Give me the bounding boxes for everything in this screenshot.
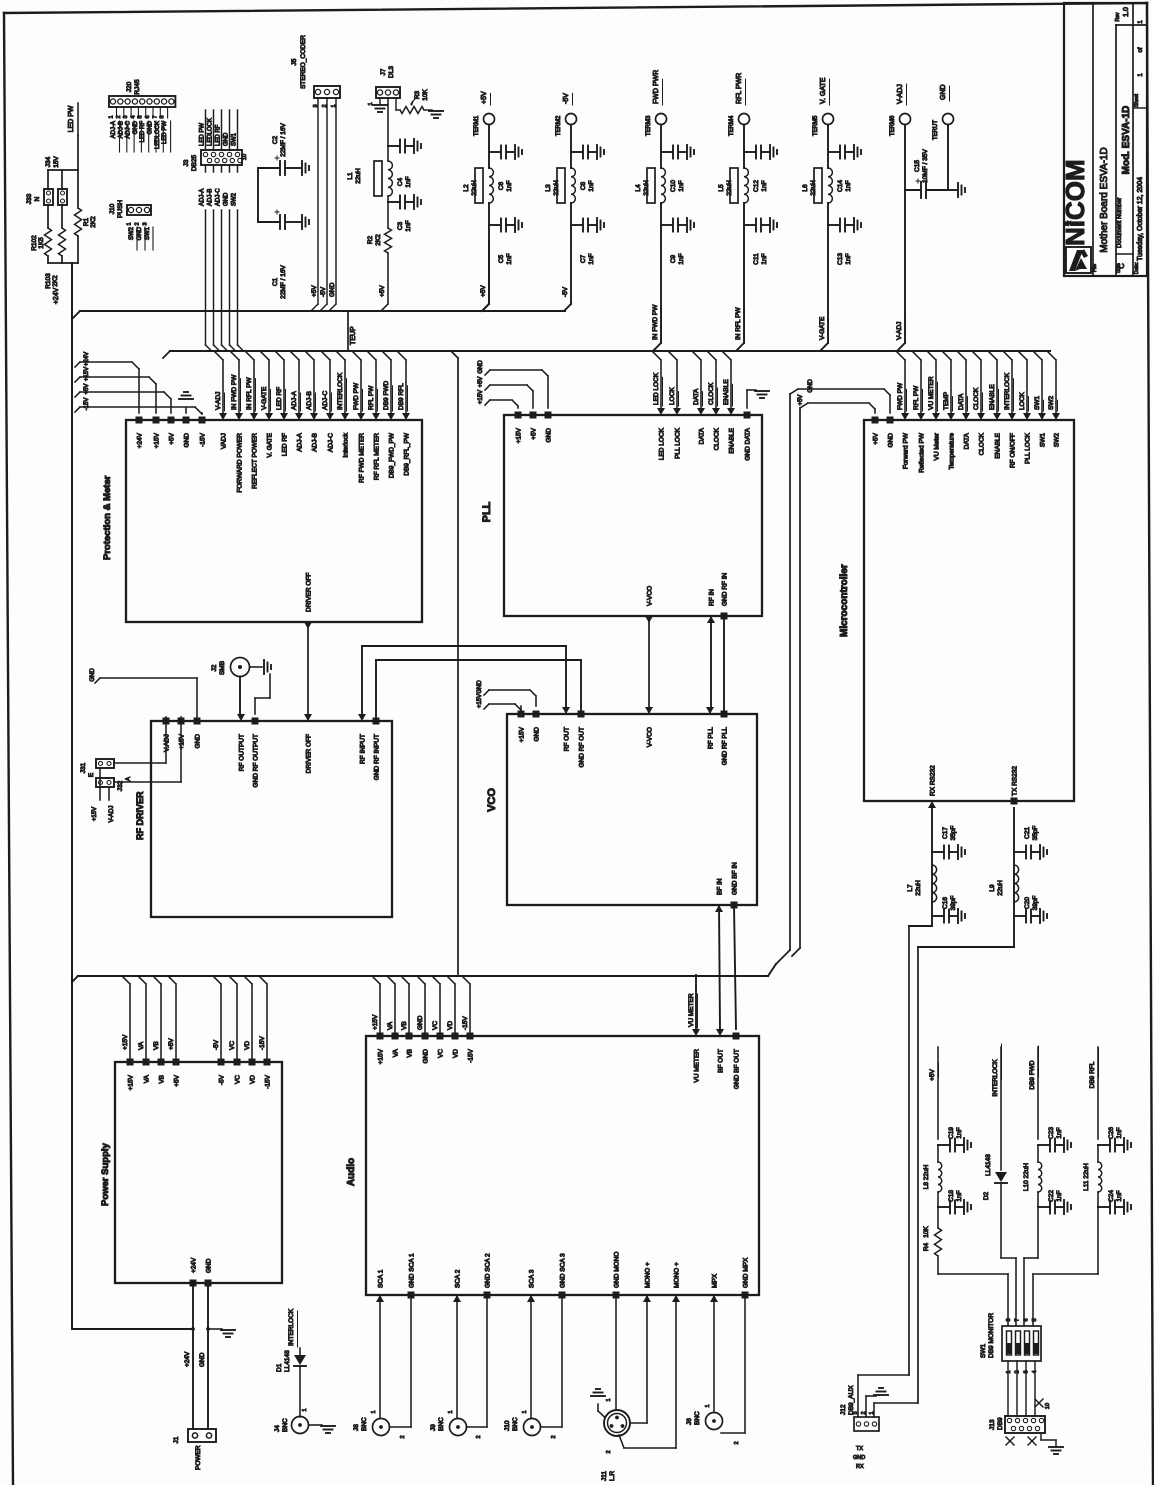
pin +24V — [136, 417, 143, 424]
svg-text:+15V: +15V — [378, 1048, 385, 1064]
svg-text:VA: VA — [393, 1048, 400, 1057]
svg-text:2: 2 — [551, 1435, 557, 1438]
svg-text:GND BF IN: GND BF IN — [732, 862, 739, 895]
wire GND RF OUT up — [580, 660, 582, 714]
svg-text:3: 3 — [143, 222, 149, 225]
svg-text:C10: C10 — [670, 180, 677, 192]
svg-text:10K: 10K — [923, 1226, 930, 1238]
svg-text:2: 2 — [606, 1450, 612, 1453]
wire L10 to SW1 — [1037, 1207, 1039, 1258]
svg-text:C18: C18 — [948, 1190, 955, 1202]
svg-text:PLL: PLL — [481, 501, 493, 522]
svg-text:GND SCA 3: GND SCA 3 — [560, 1253, 567, 1288]
pin BF OUT — [716, 1029, 724, 1036]
ground at J11 — [598, 1411, 605, 1417]
svg-text:E: E — [88, 772, 95, 777]
svg-text:RJ45: RJ45 — [134, 79, 141, 95]
svg-text:GND MPX: GND MPX — [743, 1257, 750, 1288]
svg-text:35pF: 35pF — [1032, 826, 1039, 841]
pin GND BF IN VCO bottom — [731, 902, 738, 909]
svg-text:ADJ-B: ADJ-B — [306, 391, 313, 410]
svg-text:VD: VD — [447, 1021, 454, 1030]
svg-text:+5V: +5V — [174, 1074, 181, 1086]
pin GND DATA — [744, 412, 751, 419]
svg-text:File: File — [1092, 264, 1098, 272]
svg-text:1K5: 1K5 — [38, 237, 45, 249]
svg-text:GND SCA 2: GND SCA 2 — [485, 1253, 492, 1288]
svg-text:BF OUT: BF OUT — [718, 1049, 725, 1073]
pin ENABLE — [993, 413, 1001, 420]
svg-text:J8: J8 — [353, 1424, 360, 1431]
svg-text:J9: J9 — [430, 1424, 437, 1431]
svg-text:TERM4: TERM4 — [729, 115, 735, 136]
bus +5V rail — [80, 310, 565, 312]
no-connect X mark — [1035, 1399, 1043, 1407]
svg-text:Sheet: Sheet — [1134, 93, 1140, 107]
svg-text:Protection & Meter: Protection & Meter — [102, 475, 113, 560]
svg-text:J7: J7 — [380, 68, 387, 75]
risers Protection — [222, 360, 224, 413]
svg-text:J1: J1 — [173, 1436, 180, 1443]
pin VB — [158, 1059, 165, 1066]
pin +5V — [168, 417, 175, 424]
svg-text:Mother Board ESVA-1D: Mother Board ESVA-1D — [1099, 147, 1110, 252]
svg-text:GND RF INPUT: GND RF INPUT — [374, 734, 381, 780]
svg-text:V-GATE: V-GATE — [261, 386, 268, 410]
svg-text:INTERLOCK: INTERLOCK — [1004, 372, 1011, 410]
pin GND — [183, 417, 190, 424]
riser — [394, 984, 396, 1032]
svg-text:C2: C2 — [272, 135, 279, 144]
resistor R102 1K5 — [45, 228, 52, 256]
svg-text:INTERLOCK: INTERLOCK — [288, 1308, 295, 1346]
svg-text:GND RF OUT: GND RF OUT — [579, 727, 586, 767]
svg-text:C4: C4 — [397, 177, 404, 186]
pin RF OUT — [562, 707, 570, 714]
pin +15V — [518, 711, 525, 718]
svg-text:DB9 MONITOR: DB9 MONITOR — [988, 1313, 995, 1358]
svg-text:J33: J33 — [26, 193, 33, 204]
svg-text:LED RF: LED RF — [282, 433, 289, 456]
svg-text:RFL PW: RFL PW — [913, 385, 920, 410]
svg-text:SCA 1: SCA 1 — [378, 1269, 385, 1288]
pin Reflected PW — [917, 413, 925, 420]
wire GND SCA 3 — [561, 1295, 563, 1427]
svg-text:6: 6 — [1023, 1318, 1029, 1321]
svg-text:ENABLE: ENABLE — [995, 432, 1002, 458]
svg-text:C17: C17 — [942, 827, 949, 839]
svg-text:V. GATE: V. GATE — [267, 432, 274, 457]
svg-text:J34: J34 — [45, 156, 52, 167]
wire RF INPUT link — [362, 645, 566, 647]
svg-text:LOCK: LOCK — [669, 387, 676, 405]
pin VA — [392, 1033, 399, 1040]
svg-text:INTERLOCK: INTERLOCK — [337, 372, 344, 410]
wires SW1 to J13 — [1007, 1361, 1009, 1416]
svg-text:TEUP: TEUP — [350, 326, 357, 345]
svg-text:+15V: +15V — [478, 390, 484, 404]
wire RF IN to RF PLL — [710, 616, 712, 710]
svg-text:1nF: 1nF — [405, 176, 412, 187]
svg-text:DATA: DATA — [958, 393, 965, 410]
svg-text:IN FWD PW: IN FWD PW — [652, 304, 659, 340]
svg-text:ADJ-A: ADJ-A — [111, 121, 117, 138]
svg-text:GND: GND — [133, 120, 139, 134]
pin +15V — [515, 412, 522, 419]
svg-text:Microcontroller: Microcontroller — [839, 564, 850, 637]
capacitor C23 1nF — [1038, 1144, 1049, 1146]
svg-text:1: 1 — [705, 1404, 711, 1407]
svg-text:+5V: +5V — [478, 377, 484, 388]
svg-text:GND: GND — [224, 192, 230, 206]
pin VD — [452, 1033, 459, 1040]
svg-text:2: 2 — [135, 222, 141, 225]
svg-text:LEDLOCK: LEDLOCK — [208, 118, 214, 146]
wire long verticals from hooks — [789, 394, 791, 950]
svg-text:+15V: +15V — [84, 367, 90, 381]
svg-text:4: 4 — [130, 115, 136, 118]
svg-text:R3: R3 — [414, 90, 421, 99]
svg-text:C1: C1 — [272, 277, 279, 286]
svg-text:-15V: -15V — [259, 1036, 266, 1050]
svg-text:1nF: 1nF — [761, 180, 768, 191]
riser — [439, 984, 441, 1032]
pin CLOCK — [712, 408, 720, 415]
svg-text:7: 7 — [1015, 1318, 1021, 1321]
svg-text:TX RS232: TX RS232 — [1012, 766, 1019, 796]
svg-text:ADJ-B: ADJ-B — [118, 121, 124, 138]
svg-text:Reflected PW: Reflected PW — [919, 432, 926, 473]
wire GND MPX — [744, 1295, 746, 1433]
riser — [175, 984, 177, 1058]
svg-text:1: 1 — [302, 1408, 308, 1411]
svg-text:Date:: Date: — [1134, 262, 1140, 274]
svg-text:5: 5 — [1032, 1318, 1038, 1321]
svg-text:R2: R2 — [367, 235, 374, 244]
wire +24V junction — [47, 256, 49, 263]
svg-text:SW1: SW1 — [232, 132, 238, 146]
svg-text:VD: VD — [250, 1075, 257, 1084]
svg-text:V-ADJ: V-ADJ — [215, 392, 222, 410]
svg-text:L1: L1 — [347, 172, 354, 180]
pin BF IN VCO bottom — [715, 905, 723, 912]
pin SCA 1 — [376, 1295, 384, 1302]
svg-text:VC: VC — [235, 1075, 242, 1084]
svg-text:1nF: 1nF — [761, 253, 768, 264]
svg-text:VB: VB — [159, 1075, 166, 1084]
pin V-VCO PLL bottom — [645, 616, 653, 623]
svg-text:RF FWD METER: RF FWD METER — [359, 433, 366, 483]
wire +24V rail join — [72, 1328, 193, 1330]
svg-text:J2: J2 — [211, 664, 218, 671]
svg-text:L.R: L.R — [609, 1471, 616, 1481]
svg-text:1nF: 1nF — [1116, 1127, 1123, 1138]
capacitor C7 1nF — [570, 203, 572, 240]
svg-text:MONO +: MONO + — [674, 1262, 681, 1288]
svg-text:+15V: +15V — [179, 733, 186, 749]
svg-text:2K2: 2K2 — [375, 234, 382, 246]
svg-text:-5V: -5V — [320, 286, 327, 297]
svg-text:LED LOCK: LED LOCK — [659, 427, 666, 460]
svg-text:22MF / 16V: 22MF / 16V — [280, 265, 287, 299]
wire — [387, 98, 389, 146]
svg-text:FWD PWR: FWD PWR — [653, 70, 660, 104]
svg-text:TERM6: TERM6 — [890, 115, 896, 136]
svg-text:1: 1 — [109, 115, 115, 118]
svg-text:L7: L7 — [907, 884, 914, 892]
block PLL — [504, 415, 762, 616]
svg-text:-5V: -5V — [562, 286, 569, 297]
svg-text:J4: J4 — [274, 1425, 281, 1432]
svg-text:DL3: DL3 — [388, 66, 395, 78]
svg-text:L6: L6 — [802, 184, 809, 192]
svg-text:22uH: 22uH — [997, 880, 1004, 896]
svg-text:J10: J10 — [504, 1420, 511, 1431]
pin RF PLL — [706, 707, 714, 714]
svg-text:8: 8 — [1006, 1318, 1012, 1321]
pin GND — [533, 711, 540, 718]
svg-text:RF DRIVER: RF DRIVER — [135, 791, 145, 840]
svg-text:C7: C7 — [580, 254, 587, 263]
svg-text:1nF: 1nF — [678, 253, 685, 264]
svg-text:V-ADJ: V-ADJ — [896, 322, 903, 340]
svg-text:DB9 FWD: DB9 FWD — [1029, 1060, 1036, 1090]
pin +15V — [127, 1059, 134, 1066]
capacitor C4 1nF — [388, 145, 399, 147]
svg-text:RX RS232: RX RS232 — [930, 765, 937, 796]
pin MONO + — [643, 1295, 651, 1302]
wire GND RF INPUT link — [376, 659, 581, 661]
svg-text:LED RF: LED RF — [140, 121, 146, 143]
svg-text:SCA 3: SCA 3 — [529, 1269, 536, 1288]
svg-text:RF ON/OFF: RF ON/OFF — [1010, 433, 1017, 468]
svg-text:IN RFL PW: IN RFL PW — [735, 307, 742, 340]
svg-text:Document Number: Document Number — [1117, 198, 1123, 248]
svg-text:DATA: DATA — [699, 427, 706, 444]
svg-text:+24V: +24V — [53, 287, 60, 304]
pin GND RF IN PLL bottom — [721, 613, 728, 620]
svg-text:3: 3 — [123, 115, 129, 118]
svg-text:1nF: 1nF — [845, 180, 852, 191]
svg-text:SW1: SW1 — [145, 226, 151, 240]
pin VD — [249, 1059, 256, 1066]
pin RF OUTPUT — [237, 714, 245, 721]
svg-text:VA: VA — [138, 1041, 145, 1050]
svg-text:J13: J13 — [989, 1419, 996, 1430]
svg-text:C8: C8 — [580, 181, 587, 190]
svg-text:LEDLOCK: LEDLOCK — [155, 121, 161, 149]
svg-text:VD: VD — [244, 1041, 251, 1050]
svg-text:+5V: +5V — [84, 384, 90, 395]
capacitor C21 35pF — [1014, 851, 1025, 853]
svg-text:1nF: 1nF — [405, 220, 412, 231]
wire J2 to RF OUTPUT — [239, 677, 241, 718]
wire +24V to J1 — [192, 1283, 194, 1429]
pin DRIVER OFF bottom — [304, 622, 312, 629]
svg-text:VA: VA — [387, 1021, 394, 1030]
svg-text:RX: RX — [856, 1464, 864, 1470]
svg-text:C15: C15 — [914, 160, 921, 172]
svg-text:J5: J5 — [291, 58, 298, 65]
pin VU METER — [692, 1029, 700, 1036]
svg-text:1nF: 1nF — [506, 253, 513, 264]
capacitor C19 1nF — [938, 1144, 949, 1146]
svg-text:+5V: +5V — [798, 395, 804, 406]
pin GND SCA 2 — [484, 1292, 491, 1299]
svg-text:C24: C24 — [1108, 1190, 1115, 1202]
svg-text:35pF: 35pF — [950, 826, 957, 841]
svg-text:1nF: 1nF — [506, 180, 513, 191]
wire GND RF OUTPUT — [269, 674, 271, 698]
svg-text:D2: D2 — [983, 1191, 990, 1200]
wire GND SCA 1 — [410, 1295, 412, 1427]
wire RF OUT up — [565, 646, 567, 714]
svg-text:LL4148: LL4148 — [985, 1154, 992, 1176]
pin GND — [422, 1033, 429, 1040]
svg-text:ADJ-B: ADJ-B — [208, 189, 214, 206]
svg-text:C19: C19 — [948, 1127, 955, 1139]
svg-text:J31: J31 — [80, 762, 87, 773]
riser — [266, 984, 268, 1058]
svg-text:+15V: +15V — [92, 807, 98, 821]
svg-text:-5V: -5V — [563, 93, 570, 104]
svg-text:CLOCK: CLOCK — [708, 382, 715, 405]
capacitor C13 1nF — [827, 203, 829, 240]
pin DB9_RFL_PW — [402, 413, 410, 420]
pin SW1 — [1038, 413, 1046, 420]
pin CLOCK — [977, 413, 985, 420]
svg-text:BNC: BNC — [694, 1411, 701, 1425]
svg-text:+5V: +5V — [168, 1038, 175, 1050]
svg-text:A: A — [125, 776, 132, 781]
svg-text:TERM5: TERM5 — [813, 115, 819, 136]
svg-text:FORWARD POWER: FORWARD POWER — [237, 433, 244, 493]
svg-text:SCA 2: SCA 2 — [455, 1269, 462, 1288]
svg-text:+5V: +5V — [311, 285, 318, 297]
pin RF IN PLL bottom — [707, 616, 715, 623]
wire L11 to SW1 — [1097, 1207, 1099, 1274]
svg-text:C12: C12 — [753, 180, 760, 192]
svg-text:LED PW: LED PW — [68, 105, 75, 132]
svg-text:+5V: +5V — [929, 1068, 936, 1080]
pin +15V — [377, 1033, 384, 1040]
svg-text:R1: R1 — [83, 217, 90, 226]
pin V.ADJ — [163, 718, 170, 725]
svg-text:Rev: Rev — [1115, 12, 1121, 21]
svg-text:+5V: +5V — [481, 91, 488, 104]
capacitor C16 39pF — [932, 915, 943, 917]
svg-text:22uH: 22uH — [355, 168, 362, 184]
svg-text:L2: L2 — [463, 184, 470, 192]
svg-text:GND RF PLL: GND RF PLL — [722, 727, 729, 766]
svg-text:of: of — [1138, 47, 1144, 52]
svg-text:1: 1 — [371, 1410, 377, 1413]
svg-text:1: 1 — [1006, 1370, 1012, 1373]
svg-text:+24V: +24V — [184, 1351, 191, 1367]
svg-text:DB9_AUX: DB9_AUX — [848, 1385, 855, 1415]
riser — [160, 984, 162, 1058]
pin VC — [234, 1059, 241, 1066]
capacitor C6 1nF — [488, 125, 490, 169]
pin MPX — [710, 1295, 718, 1302]
capacitor C20 39pF — [1014, 915, 1025, 917]
svg-text:C11: C11 — [753, 253, 760, 265]
svg-text:L11 22uH: L11 22uH — [1083, 1163, 1090, 1191]
svg-text:IN RFL PW: IN RFL PW — [246, 377, 253, 410]
svg-text:SW2: SW2 — [129, 226, 135, 240]
capacitor C3 1nF — [388, 201, 399, 203]
svg-text:NiCOM: NiCOM — [1060, 159, 1090, 246]
svg-text:C6: C6 — [498, 181, 505, 190]
svg-text:BNC: BNC — [361, 1417, 368, 1431]
svg-text:C5: C5 — [498, 254, 505, 263]
svg-text:RF INPUT: RF INPUT — [360, 734, 367, 764]
riser — [236, 984, 238, 1058]
svg-text:+15V: +15V — [372, 1014, 379, 1030]
svg-text:ENABLE: ENABLE — [989, 384, 996, 410]
pin GND — [194, 718, 201, 725]
svg-text:DB25: DB25 — [191, 154, 198, 171]
svg-text:MONO +: MONO + — [645, 1262, 652, 1288]
pin ENABLE — [727, 408, 735, 415]
svg-text:PUSH: PUSH — [117, 200, 124, 218]
svg-text:TERM3: TERM3 — [646, 115, 652, 136]
svg-text:J11: J11 — [601, 1471, 608, 1481]
svg-text:GND: GND — [224, 132, 230, 146]
svg-text:GND RF IN: GND RF IN — [722, 572, 729, 606]
svg-text:1nF: 1nF — [1056, 1190, 1063, 1201]
svg-text:-5V: -5V — [219, 1074, 226, 1085]
svg-text:1: 1 — [606, 1398, 612, 1401]
svg-text:RFL PW: RFL PW — [368, 385, 375, 410]
svg-text:+15V: +15V — [154, 432, 161, 448]
pin RX RS232 — [928, 801, 936, 808]
block Power Supply — [115, 1062, 282, 1283]
page border frame — [4, 3, 1147, 13]
svg-text:-15V: -15V — [462, 1016, 469, 1030]
capacitor C17 35pF — [932, 851, 943, 853]
pin GND MONO — [613, 1292, 620, 1299]
svg-text:+15V: +15V — [516, 427, 523, 443]
svg-text:SW2: SW2 — [1048, 396, 1055, 410]
svg-text:VC: VC — [438, 1049, 445, 1058]
pin TX RS232 — [1011, 798, 1018, 805]
wire MONO+ to XLR right — [646, 1295, 648, 1423]
pin GND SCA 3 — [559, 1292, 566, 1299]
svg-text:DB9: DB9 — [997, 1417, 1004, 1430]
svg-text:SMB: SMB — [219, 661, 226, 675]
capacitor C26 1nF — [1098, 1144, 1109, 1146]
wire TX to J12 — [918, 946, 1014, 948]
svg-text:RF RFL METER: RF RFL METER — [374, 433, 381, 480]
svg-text:1nF: 1nF — [678, 180, 685, 191]
svg-text:2: 2 — [116, 115, 122, 118]
pin GND MPX — [742, 1292, 749, 1299]
svg-text:GND SCA 1: GND SCA 1 — [409, 1253, 416, 1288]
svg-text:C23: C23 — [1048, 1127, 1055, 1139]
svg-text:GND BF OUT: GND BF OUT — [734, 1049, 741, 1089]
svg-text:15V: 15V — [53, 156, 60, 168]
svg-text:GND: GND — [137, 226, 143, 240]
svg-text:-15V: -15V — [265, 1074, 272, 1088]
wire DRIVER OFF — [307, 622, 309, 721]
pin GND RF PLL — [721, 711, 728, 718]
svg-text:RFL PWR: RFL PWR — [736, 73, 743, 104]
svg-text:LED PW: LED PW — [200, 123, 206, 146]
svg-text:INTERLOCK: INTERLOCK — [992, 1059, 999, 1097]
svg-text:MPX: MPX — [712, 1273, 719, 1288]
svg-text:R103: R103 — [45, 273, 52, 289]
